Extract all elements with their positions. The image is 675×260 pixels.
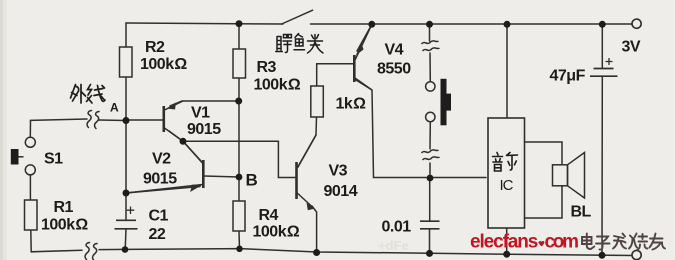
junction dot V1/V2 collectors (180, 138, 187, 145)
connector plug symbol (441, 79, 452, 126)
svg-text:R3: R3 (257, 59, 277, 76)
wire top rail left segment (126, 23, 283, 24)
label e yu jia (alligator clip) chinese (276, 34, 323, 54)
wire 47uF bottom to rail (601, 77, 603, 256)
wire V4 collector down and across to C junction (356, 80, 486, 178)
wire 1k bottom (315, 117, 318, 135)
svg-text:100k Ω: 100k Ω (254, 77, 301, 94)
svg-text:9015: 9015 (143, 171, 177, 188)
svg-text:100k Ω: 100k Ω (253, 224, 300, 241)
wire junction to V3 base corner (183, 141, 295, 177)
svg-text:100k Ω: 100k Ω (140, 56, 187, 73)
svg-text:1k Ω: 1k Ω (336, 96, 367, 113)
junction dot top rail connector (426, 21, 433, 28)
wire jack circle 2 to second squiggle (429, 122, 431, 149)
wire 0.01 bottom to rail (429, 229, 431, 253)
svg-text:B: B (246, 171, 258, 190)
svg-text:3V: 3V (622, 39, 641, 56)
resistor R1 (25, 200, 38, 230)
svg-text:V4: V4 (385, 42, 404, 59)
wire 1k top to V4 base corner (317, 64, 353, 86)
label wai xian (outer line) chinese (71, 85, 106, 104)
svg-text:BL: BL (571, 204, 592, 221)
wire squiggle to jack circle 1 (429, 53, 431, 82)
wire C1 bottom to bottom rail (124, 229, 127, 250)
svg-text:R1: R1 (54, 199, 74, 216)
wire squiggle 2 to junction (429, 163, 431, 178)
junction dot V2 emitter on left line (123, 190, 130, 197)
svg-text:9014: 9014 (324, 183, 358, 200)
svg-text:IC: IC (500, 177, 514, 194)
wire R3 top from rail (238, 24, 240, 49)
junction dot V1 emitter to R3 line (235, 98, 242, 105)
wire connector line from top rail to squiggle (429, 24, 431, 41)
svg-text:com: com (545, 232, 579, 253)
svg-text:8550: 8550 (377, 61, 411, 78)
wire V1 collector to junction (169, 131, 183, 141)
wire V1 emitter horizontal to R3 line (170, 101, 239, 106)
wire music IC to speaker top (525, 142, 563, 164)
capacitor 47uF (590, 58, 618, 76)
junction dot top rail V4 (368, 21, 375, 28)
watermark dianzi fashaoyou chinese (582, 234, 665, 250)
capacitor 0.01 (420, 221, 440, 229)
break marks bottom rail left (85, 243, 97, 260)
wire V2 collector to junction (183, 141, 201, 161)
battery terminal top 3V (632, 19, 641, 28)
wire R2 to node A (125, 77, 127, 121)
svg-text:9015: 9015 (187, 121, 221, 138)
wire button to R1 (29, 175, 31, 200)
junction dot bottom rail 0.01 (426, 250, 433, 257)
wire left outer line from S1 corner to break (31, 119, 88, 120)
wire node B to R4 (238, 177, 240, 201)
wire bottom rail after break (99, 249, 633, 256)
svg-text:A: A (110, 101, 119, 115)
wire junction down to 0.01 cap (429, 178, 431, 221)
music IC block (488, 118, 525, 228)
svg-text:V2: V2 (152, 151, 171, 168)
wire V4 emitter from top rail (357, 25, 372, 52)
resistor R3 (233, 49, 246, 78)
wire V3 emitter down to rail (312, 206, 317, 252)
label yinyue (music) chinese in block (493, 153, 518, 172)
node A junction dot (123, 117, 130, 124)
transistor V2 (126, 141, 203, 193)
svg-text:elecfans: elecfans (470, 232, 538, 253)
wire node A to V1 base (126, 119, 163, 121)
connector jack circles (426, 82, 435, 122)
wire junction to C1 top (125, 193, 127, 220)
node B junction dot (236, 174, 243, 181)
transistor V1 (164, 101, 183, 141)
pushbutton S1 (11, 137, 36, 175)
wire V3 collector to 1k line (298, 135, 316, 167)
break squiggle connector lower (422, 150, 440, 160)
wire V2 emitter to left line (126, 187, 200, 194)
svg-text:+dFe: +dFe (378, 238, 409, 253)
svg-text:0.01: 0.01 (382, 219, 412, 236)
watermark heart mark (538, 241, 544, 246)
svg-text:V3: V3 (329, 163, 348, 180)
wire V2 base to node B (204, 176, 239, 177)
wire node A down to V2 emitter junction (125, 121, 127, 194)
junction dot bottom rail V3 emitter (313, 249, 320, 256)
junction dot bottom rail C1 (122, 246, 129, 253)
svg-text:R4: R4 (259, 207, 279, 224)
battery terminal bottom (632, 250, 641, 259)
switch alligator clip lever (282, 10, 313, 24)
wire R4 bottom to rail (238, 231, 241, 249)
svg-text:100k Ω: 100k Ω (41, 217, 88, 234)
wire speaker bottom to music IC (525, 186, 563, 218)
break marks outer line top left (87, 111, 99, 129)
wire S1 top corner down to button (29, 120, 31, 137)
wire top rail right segment (311, 23, 633, 25)
wire R3 bottom to node B (238, 78, 240, 177)
transistor V4 (354, 25, 372, 91)
resistor 1k (311, 86, 324, 117)
resistor R4 (233, 201, 245, 231)
junction dot bottom rail music IC (503, 251, 510, 258)
svg-text:S1: S1 (44, 151, 63, 168)
svg-text:R2: R2 (145, 39, 165, 56)
capacitor C1 (115, 207, 138, 229)
junction dot top rail 47uF (599, 21, 606, 28)
junction dot connector to 0.01 (427, 175, 434, 182)
svg-text:47μF: 47μF (550, 68, 586, 85)
resistor R2 (120, 47, 133, 77)
junction dot top rail R3 (236, 20, 243, 27)
wire 47uF top from rail (601, 24, 603, 68)
wire left vertical from top rail to R2 (125, 23, 127, 47)
wire music IC bottom to rail (506, 228, 508, 254)
speaker BL (553, 153, 585, 199)
svg-text:C1: C1 (149, 208, 169, 225)
junction dot bottom rail 47uF (599, 252, 606, 259)
wire R1 bottom to rail corner (31, 230, 82, 252)
wire break to node A (99, 119, 126, 122)
svg-text:V1: V1 (191, 105, 210, 122)
svg-text:22: 22 (149, 226, 166, 243)
junction dot bottom rail R4 (236, 246, 243, 253)
transistor V3 (297, 135, 317, 210)
junction dot top rail music IC (504, 21, 511, 28)
wire music IC top feed from rail (506, 24, 508, 118)
break squiggle connector upper (422, 41, 440, 51)
